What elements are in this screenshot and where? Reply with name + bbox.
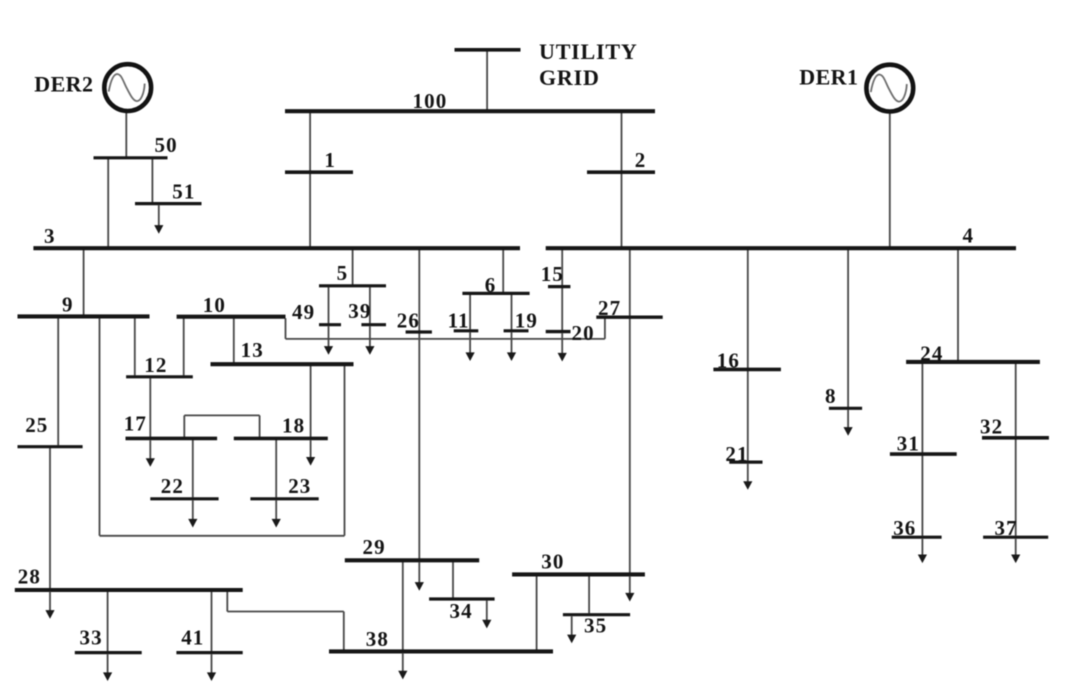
wire bus 3 to bus 5 — [352, 250, 354, 285]
svg-text:3: 3 — [44, 224, 56, 248]
bus 9 — [18, 314, 150, 318]
bus 16 — [713, 368, 781, 372]
wire bus 24 to bus 32 — [1015, 363, 1017, 436]
wire bus 9 to bus 12 — [134, 318, 136, 376]
svg-text:DER1: DER1 — [799, 65, 858, 90]
load arrow below bus 11 bar — [466, 332, 475, 361]
wire bus 16 to bus 21 — [747, 371, 749, 461]
load arrow below bus 28 — [45, 592, 54, 619]
load arrow below bus 39 bar — [365, 326, 374, 355]
load arrow below bus 23 — [272, 500, 281, 527]
svg-text:10: 10 — [203, 293, 226, 317]
svg-text:38: 38 — [366, 627, 389, 651]
bus 38 — [329, 649, 553, 653]
svg-text:39: 39 — [348, 299, 371, 323]
svg-text:17: 17 — [124, 412, 147, 436]
svg-text:16: 16 — [717, 349, 740, 373]
wire bus 31 to bus 36 — [921, 455, 923, 535]
wire bus 3 to bus 6 — [502, 250, 504, 293]
bus 2 bar — [587, 170, 655, 174]
wire riser down to bus 38 — [343, 612, 345, 651]
bus 23 — [250, 497, 318, 500]
wire tie 17-18 left riser — [183, 415, 185, 437]
svg-text:24: 24 — [920, 341, 943, 365]
svg-text:6: 6 — [485, 273, 497, 297]
wire DER2 to bus 50 — [125, 113, 127, 157]
load arrow below bus 30 — [625, 576, 634, 602]
svg-text:29: 29 — [363, 535, 386, 559]
bus 27 — [596, 316, 662, 319]
svg-text:100: 100 — [413, 89, 448, 113]
wire bus 4 to bus 16 — [747, 250, 749, 369]
bus 31 — [890, 452, 957, 456]
wire bus 28 to bus 33 — [107, 592, 109, 652]
svg-text:28: 28 — [18, 565, 41, 589]
svg-text:33: 33 — [80, 625, 103, 649]
bus 11 bar — [454, 329, 479, 332]
load arrow below bus 35 — [567, 616, 576, 643]
wire bus 29 to bus 34 — [452, 562, 454, 598]
svg-text:41: 41 — [181, 625, 204, 649]
wire bus 28 right drop — [226, 592, 228, 612]
bus 5 — [319, 284, 386, 287]
svg-text:49: 49 — [292, 300, 315, 324]
svg-text:50: 50 — [155, 133, 178, 157]
bus 17 — [126, 437, 218, 441]
wire bus 12 to bus 17 — [149, 378, 151, 437]
svg-text:1: 1 — [324, 148, 336, 172]
bus 13 — [211, 362, 354, 366]
load arrow below bus 18 — [306, 440, 315, 465]
wire bus 5 to bus 39 bar — [369, 287, 371, 323]
bus 18 — [234, 437, 328, 441]
wire bus 24 to bus 31 — [921, 363, 923, 453]
wire 28-38 horizontal — [227, 611, 343, 613]
svg-text:23: 23 — [288, 474, 311, 498]
svg-text:2: 2 — [635, 148, 647, 172]
wire DER1 to bus 4 — [889, 113, 891, 247]
svg-text:11: 11 — [448, 309, 470, 333]
wire bus 50 to bus 51 — [151, 159, 153, 202]
load arrow below bus 22 — [188, 500, 197, 527]
wire loop bottom horizontal — [100, 535, 345, 537]
svg-text:35: 35 — [584, 614, 607, 638]
load arrow below bus 51 — [154, 205, 163, 234]
svg-text:4: 4 — [963, 223, 975, 247]
svg-text:DER2: DER2 — [34, 72, 93, 97]
bus 29 — [345, 558, 479, 562]
svg-text:37: 37 — [995, 516, 1018, 540]
wire bus 3 to bus 9 — [83, 250, 85, 316]
load arrow below bus 20 bar — [558, 333, 567, 361]
wire bus 29 to bus 38 — [402, 562, 404, 650]
bus 28 — [15, 588, 243, 592]
svg-text:20: 20 — [572, 321, 595, 345]
bus 26 bar — [406, 330, 432, 333]
wire bus 10 to bus 12 — [183, 318, 185, 376]
wire bus 30 to bus 35 — [588, 576, 590, 613]
svg-text:12: 12 — [144, 353, 167, 377]
load arrow below bus 49 bar — [324, 326, 333, 355]
load arrow below bus 34 — [482, 601, 491, 629]
svg-text:13: 13 — [241, 338, 264, 362]
bus 51 — [135, 202, 202, 205]
wire bus 5 to bus 49 bar — [328, 287, 330, 323]
svg-text:19: 19 — [515, 309, 538, 333]
wire tie 17-18 top — [184, 414, 259, 416]
wire bus 9 loop drop — [99, 318, 101, 536]
svg-text:30: 30 — [541, 550, 564, 574]
bus 12 — [126, 375, 193, 378]
svg-text:21: 21 — [725, 442, 748, 466]
bus 37 — [983, 536, 1048, 539]
svg-text:5: 5 — [337, 261, 349, 285]
load arrow below bus 8 — [844, 410, 853, 436]
bus 49 bar — [319, 323, 341, 326]
bus 41 — [176, 651, 242, 654]
svg-text:36: 36 — [893, 516, 916, 540]
wire riser to bus 27 — [604, 319, 606, 339]
svg-text:27: 27 — [598, 296, 621, 320]
bus 30 — [512, 572, 645, 576]
wire bus 4 long feeder to bus 30 — [629, 250, 631, 574]
wire bus 6 to bus 11 bar — [469, 295, 471, 330]
wire bus 28 to bus 41 — [211, 592, 213, 652]
load arrow below bus 41 — [207, 654, 216, 681]
wire bus 4 to bus 8 — [847, 250, 849, 408]
bus 50 — [94, 156, 168, 159]
bus 21 — [729, 461, 762, 464]
bus 10 — [177, 315, 286, 319]
wire bus 25 to bus 28 — [49, 448, 51, 589]
generator DER2 circle — [104, 64, 151, 111]
bus 100 — [285, 109, 655, 113]
wire bus 13 to bus 18 — [310, 366, 312, 438]
svg-text:8: 8 — [825, 384, 837, 408]
bus 36 — [892, 536, 942, 539]
wire bus 100 to bus 3 through bus 1 bar — [309, 113, 311, 248]
bus 24 — [906, 360, 1040, 364]
svg-text:25: 25 — [25, 413, 48, 437]
wire bus 10 right drop — [285, 318, 287, 339]
wire tie 17-18 right riser — [259, 415, 261, 437]
wire bus 4 to bus 24 — [957, 250, 959, 361]
bus 34 — [429, 597, 495, 600]
load arrow below bus 29 — [415, 562, 424, 591]
load arrow below bus 33 — [103, 654, 112, 681]
wire bus 32 to bus 37 — [1015, 439, 1017, 536]
svg-text:26: 26 — [397, 309, 420, 333]
svg-text:GRID: GRID — [539, 65, 600, 90]
wire bus 17 to bus 22 — [192, 440, 194, 497]
generator DER1 circle — [866, 65, 913, 112]
wire bus 9 to bus 25 — [57, 318, 59, 446]
svg-text:31: 31 — [897, 432, 920, 456]
load arrow below bus 38 — [398, 653, 407, 679]
wire bus 4 long feeder to bus 29 through bus 26 bar — [418, 250, 420, 560]
bus 32 — [982, 436, 1049, 440]
load arrow below bus 17 — [146, 440, 155, 467]
wire long horizontal 10-20 — [286, 338, 605, 340]
bus 22 — [150, 497, 218, 500]
bus 25 — [18, 445, 83, 448]
bus 39 bar — [361, 323, 386, 326]
bus 33 — [75, 651, 142, 654]
bus 35 — [563, 613, 630, 616]
wire bus 18 to bus 23 — [275, 440, 277, 497]
wire bus 50 to bus 3 — [107, 159, 109, 247]
bus 1 bar — [285, 170, 353, 174]
bus 15 bar — [548, 285, 570, 288]
bus 6 — [462, 292, 529, 295]
svg-text:22: 22 — [161, 474, 184, 498]
wire loop riser to bus 13 — [344, 366, 346, 536]
svg-text:15: 15 — [541, 262, 564, 286]
load arrow below bus 19 bar — [507, 332, 516, 361]
svg-text:32: 32 — [980, 415, 1003, 439]
svg-text:UTILITY: UTILITY — [539, 39, 638, 64]
svg-text:18: 18 — [282, 413, 305, 437]
svg-text:9: 9 — [62, 292, 74, 316]
wire bus 10 to bus 13 — [233, 318, 235, 363]
wire bus 100 to bus 4 through bus 2 bar — [621, 113, 623, 248]
bus 8 — [829, 407, 862, 410]
wire bus 30 to bus 38 — [536, 576, 538, 650]
bus UTILITY (grid source bar) — [455, 48, 521, 52]
svg-text:34: 34 — [450, 599, 473, 623]
bus 4 — [546, 246, 1016, 250]
wire bus 6 to bus 19 bar — [511, 295, 513, 330]
load arrow below bus 37 — [1011, 539, 1020, 563]
wire bus 4 through bus 15 bar to bus 20 bar — [561, 250, 563, 331]
bus 20 bar — [546, 330, 571, 333]
load arrow below bus 36 — [918, 539, 927, 563]
bus 3 — [33, 246, 520, 250]
svg-text:51: 51 — [172, 180, 195, 204]
wire utility bar to bus 100 — [486, 52, 488, 111]
bus 19 bar — [504, 329, 529, 332]
load arrow below bus 21 — [743, 464, 752, 490]
